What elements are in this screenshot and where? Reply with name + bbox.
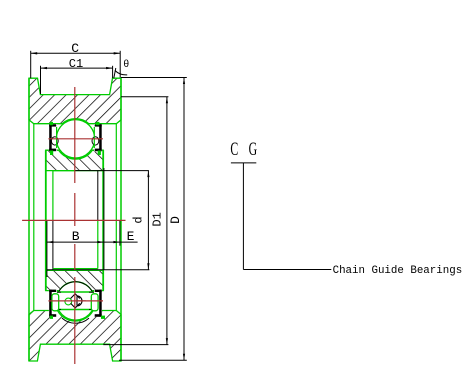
inner ring left face edge: [45, 150, 47, 290]
svg-text:B: B: [72, 229, 80, 244]
inner ring lower section: [46, 270, 103, 300]
arrowheads: [31, 52, 185, 360]
ball lower: [56, 282, 94, 320]
bore right chamfer edge upper (black): [97, 171, 99, 221]
svg-text:D1: D1: [150, 212, 164, 226]
lower left seal: [49, 289, 57, 316]
C1: [40, 66, 42, 94]
red centerlines: [22, 87, 125, 364]
bore bottom surface (green): [53, 268, 98, 270]
D dim line: [183, 78, 185, 361]
outer ring lower section: [29, 311, 121, 362]
bore right chamfer edge lower (green): [97, 220, 99, 268]
lower raceway black arc: [62, 318, 89, 323]
cage rivet detail: [65, 294, 86, 308]
upper left seal: [49, 124, 57, 151]
extension horizontals: [121, 77, 187, 79]
outer ring right chamfer edge: [115, 124, 117, 311]
lower ball top black arc: [58, 282, 92, 293]
outer ring right face edge: [120, 78, 122, 361]
outer ring upper section: [29, 78, 121, 124]
B extension line left: [46, 221, 48, 277]
theta tilt + swoosh: [114, 68, 116, 78]
lower right seal: [94, 289, 102, 316]
svg-text:C: C: [230, 139, 238, 159]
bore left chamfer edge upper (green): [52, 171, 54, 221]
svg-text:G: G: [249, 139, 258, 159]
C: [30, 51, 32, 78]
cage band lower: [53, 292, 97, 310]
svg-text:D: D: [168, 216, 183, 224]
E extension vertical: [119, 221, 121, 246]
outer ring left face edge: [28, 78, 30, 361]
dimensions black: [31, 51, 332, 361]
bore top surface + d extension line (black): [75, 170, 149, 172]
seals: [49, 122, 105, 319]
label C G (series mark): [230, 139, 257, 159]
upper right seal: [94, 124, 102, 151]
inner ring right face edge: [102, 150, 104, 290]
svg-text:θ: θ: [123, 59, 129, 71]
svg-text:C1: C1: [69, 57, 83, 71]
bore left chamfer edge lower (black): [52, 220, 54, 269]
D1 dim line: [166, 97, 168, 345]
inner ring upper section: [46, 150, 103, 170]
svg-text:C: C: [71, 41, 79, 56]
svg-text:d: d: [132, 216, 146, 223]
bore bottom + d extension line (black): [47, 269, 150, 271]
B extension line right: [103, 168, 105, 270]
bore top surface left (green): [53, 170, 75, 172]
B/E dim line: [47, 241, 138, 243]
svg-text:E: E: [127, 229, 135, 244]
outer ring left chamfer edge: [33, 124, 35, 311]
svg-text:Chain Guide Bearings: Chain Guide Bearings: [333, 265, 462, 277]
CG tree: [231, 162, 256, 164]
ball upper: [56, 120, 94, 158]
d dim line: [147, 171, 149, 270]
